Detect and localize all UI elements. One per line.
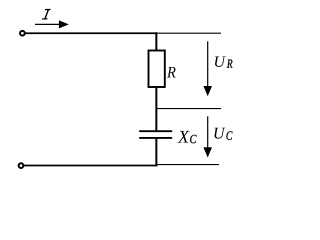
wire (vertical, junction to resistor R top pin) <box>155 32 157 51</box>
wire (resistor R bottom pin to capacitor XC top plate) <box>155 87 157 130</box>
terminal T2 (bottom left input) <box>19 163 24 168</box>
terminal T1 (top left input) <box>20 31 25 36</box>
node line (bottom reference for UC) <box>157 164 219 166</box>
voltage arrow UR <box>203 41 212 96</box>
label UR <box>215 56 233 67</box>
voltage arrow UC <box>203 116 212 157</box>
label UC <box>214 128 232 140</box>
wire (bottom rail, terminal T2 to junction) <box>24 165 158 167</box>
resistor R <box>149 51 165 88</box>
label R <box>167 67 176 78</box>
wire (top, from terminal T1 to junction) <box>25 32 157 34</box>
label I <box>42 9 51 20</box>
node line (middle reference between R and XC) <box>157 108 221 110</box>
current arrow I <box>35 20 69 28</box>
label XC <box>178 131 197 143</box>
capacitor XC top plate <box>139 130 172 132</box>
capacitor XC bottom plate <box>139 137 172 139</box>
node line (top reference for UR) <box>157 32 221 34</box>
wire (capacitor XC bottom plate to bottom rail) <box>155 139 157 167</box>
